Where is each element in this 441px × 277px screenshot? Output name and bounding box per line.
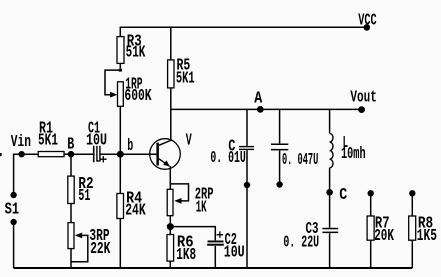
resistor R1 [38, 119, 64, 157]
wire node B to C1 [71, 153, 93, 155]
junction R3/1RP [119, 69, 122, 72]
node Vin [11, 132, 31, 157]
wire node b down to R4 [119, 154, 121, 193]
resistor R6 [167, 233, 196, 265]
wire R5 top feed [170, 27, 172, 60]
wire R4 to ground rail [119, 219, 121, 269]
node b [117, 136, 133, 158]
capacitor C 0.01U [210, 137, 254, 167]
wire 2RP to emitter junction [169, 216, 171, 227]
wire S1 bottom lead [13, 222, 15, 268]
svg-text:1K5: 1K5 [417, 226, 437, 245]
node A [254, 89, 263, 113]
wire edge artifact [0, 153, 2, 156]
svg-text:b: b [127, 136, 133, 155]
wire C 0.047U stub [279, 151, 281, 185]
wire VCC rail [120, 26, 366, 28]
svg-text:5K1: 5K1 [38, 131, 58, 150]
wire 1RP bottom to node b [119, 106, 121, 151]
capacitor C1 [86, 119, 107, 163]
node VCC [358, 10, 376, 30]
resistor R8 [409, 213, 437, 245]
wire R1 to node B [64, 153, 71, 155]
switch S1 [5, 192, 20, 225]
wire R7 to ground rail [370, 240, 372, 268]
wire node C to C3 [329, 192, 331, 227]
svg-text:0. 047U: 0. 047U [282, 150, 318, 169]
potentiometer 2RP [167, 184, 213, 216]
svg-text:B: B [67, 135, 74, 154]
wire C 0.01U to ground rail [246, 150, 248, 268]
node R7 top [368, 190, 374, 196]
junction emitter node [167, 223, 174, 230]
node C [326, 185, 347, 204]
svg-text:10mh: 10mh [341, 144, 366, 163]
svg-text:600K: 600K [124, 86, 151, 105]
wire emitter down to 2RP [169, 169, 171, 190]
svg-text:1K: 1K [196, 197, 207, 216]
wire A rail [171, 108, 362, 110]
wire ground rail [14, 267, 413, 269]
wire emitter junction to C2 [170, 227, 215, 241]
wire Vin input [14, 153, 39, 155]
svg-text:1K8: 1K8 [176, 245, 196, 264]
svg-text:20K: 20K [374, 226, 394, 245]
wire emitter junction to R6 [169, 227, 171, 235]
resistor R7 [367, 213, 394, 245]
wire Vin corner to S1 [13, 154, 15, 193]
potentiometer 3RP [68, 223, 110, 262]
svg-text:0. 01U: 0. 01U [210, 148, 245, 167]
wire R8 top lead [411, 193, 413, 216]
wire A rail to C 0.01U [246, 109, 248, 145]
wire R5 bottom to collector [159, 88, 171, 145]
svg-text:C: C [339, 185, 347, 204]
capacitor C3 [283, 219, 338, 252]
resistor R3 [117, 32, 145, 64]
wire base [120, 153, 156, 155]
wire A rail to L [329, 109, 331, 133]
capacitor C 0.047U [271, 144, 318, 170]
wire R6 to ground rail [169, 261, 171, 268]
wire L to node C [329, 168, 331, 193]
svg-text:A: A [254, 89, 262, 108]
resistor R4 [117, 189, 146, 220]
node R8 top [409, 190, 415, 196]
svg-text:S1: S1 [5, 200, 20, 219]
svg-text:V: V [186, 131, 192, 150]
wire C2 to ground rail [214, 246, 216, 268]
wire A rail to C 0.047U [279, 109, 281, 143]
svg-text:10U: 10U [224, 243, 245, 262]
svg-text:VCC: VCC [358, 10, 376, 29]
node below C 0.047U [276, 181, 282, 187]
wire C3 to ground rail [329, 233, 331, 268]
resistor R5 [168, 56, 195, 88]
svg-text:24K: 24K [125, 201, 146, 220]
wire R7 top lead [370, 193, 372, 216]
transistor V [150, 131, 192, 170]
svg-text:10U: 10U [86, 131, 107, 150]
potentiometer 1RP [105, 70, 152, 106]
svg-text:5K1: 5K1 [176, 69, 195, 88]
svg-text:51: 51 [78, 186, 90, 205]
svg-text:0. 22U: 0. 22U [283, 232, 319, 251]
svg-text:Vin: Vin [11, 132, 31, 151]
resistor R2 [68, 174, 94, 205]
wire R8 to ground rail [411, 240, 413, 268]
svg-text:22K: 22K [90, 239, 110, 258]
capacitor C2 [207, 230, 245, 262]
wire R3 bottom to junction [119, 63, 121, 68]
node Vout [350, 88, 377, 114]
wire R3 top feed [119, 27, 121, 37]
inductor L [330, 133, 366, 168]
svg-text:51K: 51K [126, 43, 146, 62]
node below C 0.01U [244, 182, 250, 188]
wire node B down to R2 [70, 154, 72, 176]
wire 3RP to ground rail [70, 249, 72, 268]
node B [67, 135, 74, 158]
wire R2 to 3RP [70, 204, 72, 223]
wire C1 to node b [100, 153, 120, 155]
svg-text:Vout: Vout [350, 88, 377, 107]
